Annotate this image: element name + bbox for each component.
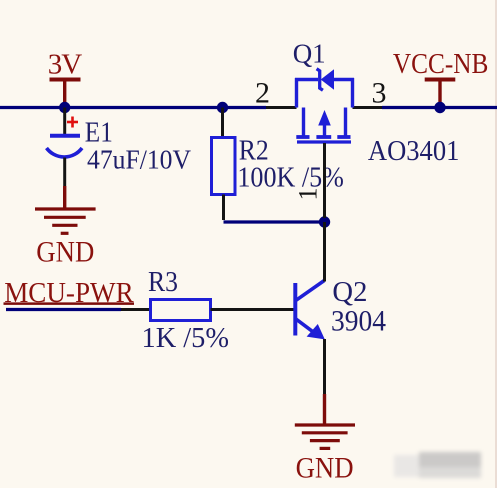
body diode anode triangle [322, 70, 334, 88]
svg-text:AO3401: AO3401 [368, 136, 460, 167]
body loop top-right [334, 78, 355, 81]
svg-text:2: 2 [255, 77, 270, 110]
svg-text:VCC-NB: VCC-NB [393, 49, 489, 80]
collector diagonal [296, 281, 324, 301]
power port 3V [48, 49, 83, 108]
pin R2 top [221, 108, 224, 138]
svg-text:Q1: Q1 [293, 39, 326, 69]
bulk arrow [318, 110, 331, 126]
pin 1 gate lead [323, 143, 326, 218]
plate top (straight) [50, 134, 80, 138]
R2 body [212, 138, 236, 195]
wire main rail right segment to VCC-NB [382, 106, 497, 109]
R3 body [151, 300, 211, 321]
gate bar [297, 140, 351, 143]
channel bar left [296, 135, 309, 139]
svg-text:GND: GND [296, 452, 354, 485]
svg-text:3V: 3V [48, 49, 83, 81]
capacitor E1 [47, 108, 192, 187]
svg-text:GND: GND [36, 236, 94, 269]
pin 3 drain [353, 106, 383, 109]
ground GND bottom [295, 394, 355, 485]
svg-text:47uF/10V: 47uF/10V [87, 145, 191, 175]
pin E1 positive [63, 108, 66, 135]
emitter arrowhead [307, 324, 325, 339]
node junction at 3V rail [59, 102, 70, 113]
svg-text:1: 1 [293, 188, 322, 201]
svg-text:100K /5%: 100K /5% [237, 163, 344, 194]
resistor R3 [121, 267, 295, 354]
body loop right [351, 78, 354, 108]
transistor Q1 PMOS AO3401 [255, 39, 459, 219]
pin R3 left [121, 308, 151, 311]
pin emitter [323, 339, 326, 394]
net label MCU-PWR [4, 278, 135, 309]
transistor Q2 NPN 3904 [295, 222, 386, 394]
channel bar middle [316, 135, 331, 139]
svg-text:R3: R3 [148, 267, 178, 298]
node junction at VCC-NB [434, 102, 445, 113]
pin R3 right to Q2 base [211, 308, 295, 311]
wire main 3V rail left segment [0, 106, 266, 109]
pin R2 bottom [222, 195, 225, 221]
power port VCC-NB [393, 49, 489, 108]
body loop top-left [295, 78, 318, 81]
node junction gate/collector [319, 216, 330, 227]
pin 2 source [266, 106, 297, 109]
emitter diagonal [296, 319, 314, 332]
source stub [302, 108, 305, 136]
pin E1 negative [63, 158, 66, 187]
channel bar right [337, 135, 350, 139]
svg-text:3904: 3904 [331, 305, 386, 338]
plate bottom (curved) [47, 148, 83, 157]
body diode cathode [317, 69, 323, 90]
wire MCU-PWR to R3 [6, 308, 121, 311]
svg-text:Q2: Q2 [332, 277, 367, 308]
wire R2 bottom to gate node [224, 220, 325, 223]
ground GND left [35, 186, 96, 269]
drain stub [344, 108, 347, 136]
base bar [293, 283, 297, 336]
svg-text:1K /5%: 1K /5% [142, 323, 230, 354]
svg-text:3: 3 [372, 77, 387, 110]
node junction at R2 top [217, 102, 228, 113]
body loop left [295, 78, 298, 108]
resistor R2 [212, 108, 344, 221]
watermark smudge [394, 452, 481, 478]
pin collector [323, 222, 326, 282]
polarity plus sign [67, 121, 78, 124]
